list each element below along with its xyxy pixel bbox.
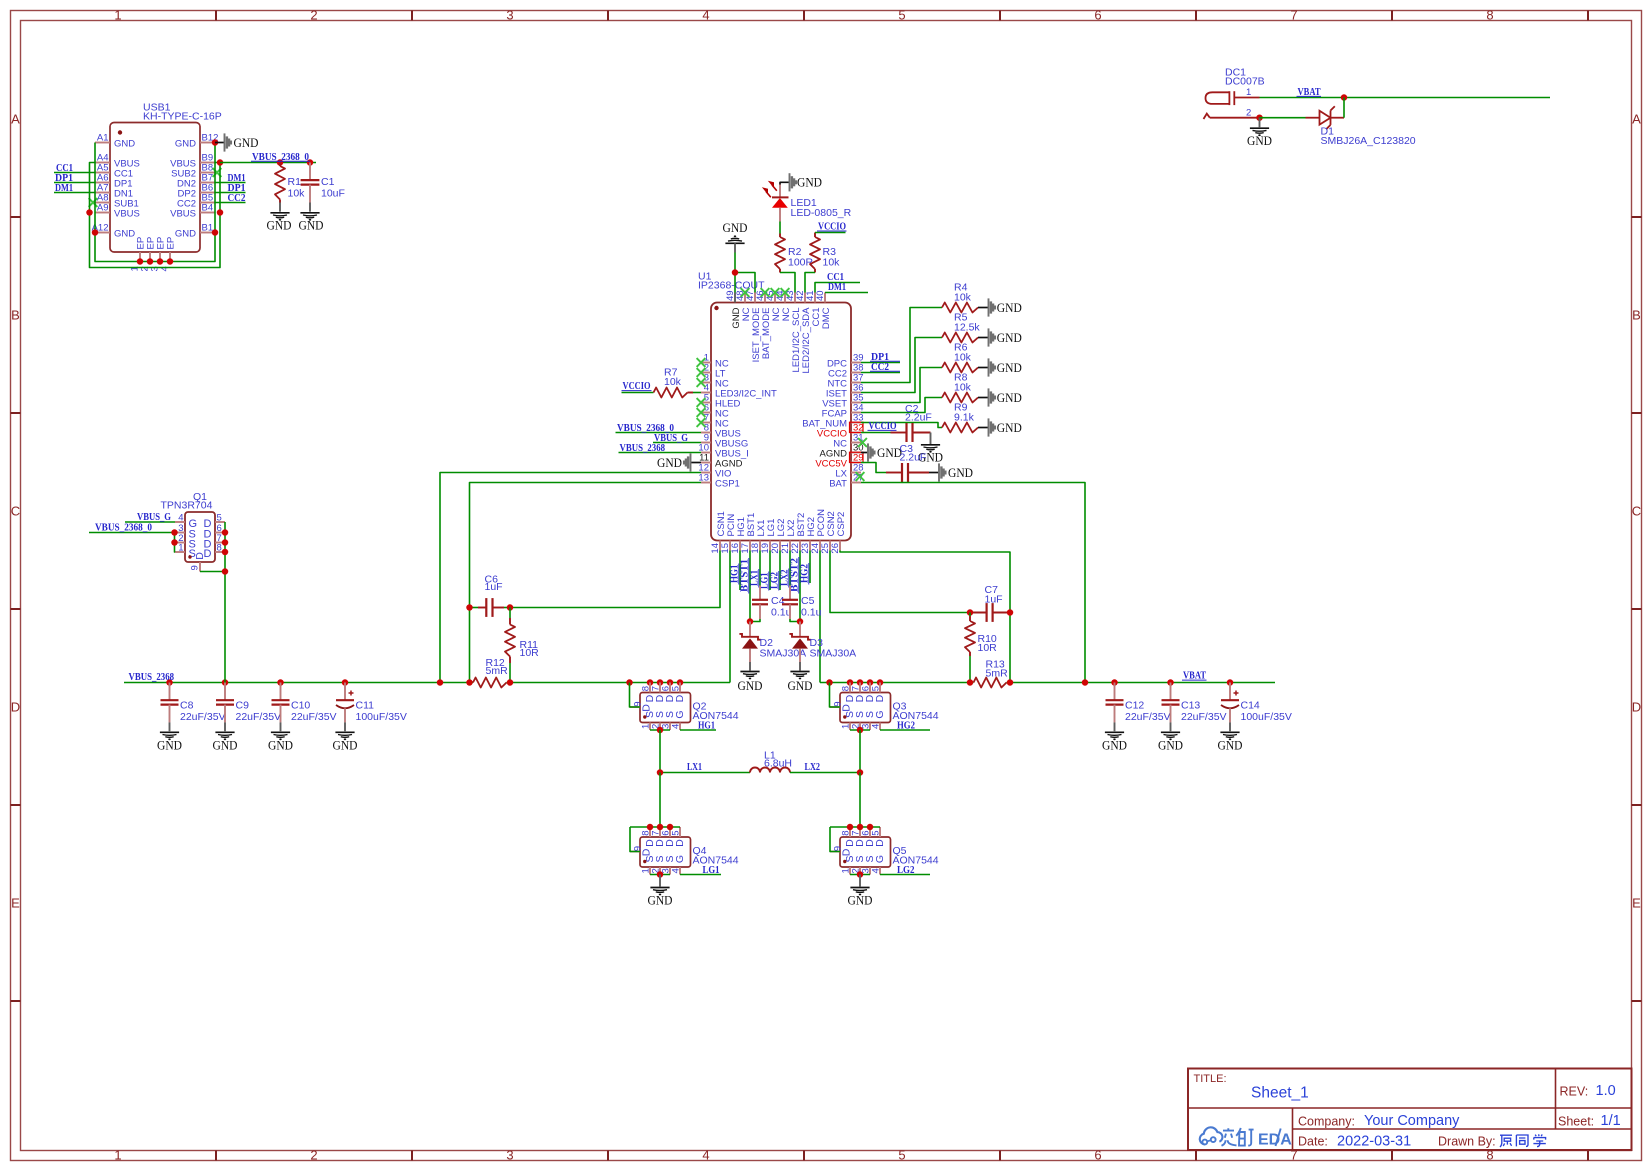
svg-text:G: G — [674, 855, 686, 863]
wire USB1 GND loop — [92, 139, 219, 265]
wire Q1 drain pins to rail — [200, 522, 228, 683]
net label VBUS_G at U1 pin 9 — [653, 432, 701, 444]
svg-text:10k: 10k — [954, 352, 972, 364]
wire Q4 source tie to ground — [650, 871, 670, 886]
svg-text:GND: GND — [788, 678, 813, 693]
net label VBUS_2368_0 at USB1 — [251, 151, 310, 163]
transistor Q5 AON7544 — [830, 827, 939, 875]
svg-text:EDA: EDA — [1258, 1132, 1292, 1149]
ground GND at D3 — [788, 672, 813, 694]
svg-text:A: A — [11, 112, 20, 127]
svg-text:GND: GND — [333, 738, 358, 753]
svg-text:HG1: HG1 — [698, 720, 715, 732]
svg-text:3: 3 — [506, 8, 513, 23]
wire U1 pin 27 BAT to rail — [861, 483, 1085, 683]
svg-text:100uF/35V: 100uF/35V — [356, 711, 407, 723]
svg-text:0.1u: 0.1u — [771, 607, 792, 619]
svg-text:C9: C9 — [236, 700, 250, 712]
svg-text:GND: GND — [948, 465, 973, 480]
wire VBUS_2368 rail left segment — [124, 679, 730, 686]
svg-text:10R: 10R — [520, 647, 540, 659]
resistor R11 10R — [505, 608, 539, 683]
svg-text:8: 8 — [1486, 8, 1493, 23]
svg-text:LX1: LX1 — [687, 761, 702, 773]
svg-text:7: 7 — [1290, 8, 1297, 23]
svg-text:4: 4 — [702, 8, 709, 23]
connector DC1 DC007B — [1204, 67, 1265, 120]
wire U1 pin49 and pin47 to GND — [732, 253, 755, 293]
svg-text:GND: GND — [1102, 738, 1127, 753]
svg-text:CSP1: CSP1 — [715, 478, 740, 489]
net label BTST2 at U1 pin 22 — [789, 551, 800, 622]
svg-text:100R: 100R — [788, 257, 814, 269]
svg-text:4: 4 — [671, 724, 682, 729]
net label DP1 at U1 pin 39 — [861, 351, 900, 363]
net label VBUS_2368_0 at Q1 pin 3 — [89, 522, 175, 534]
svg-text:9: 9 — [190, 565, 201, 570]
net label LG1 at U1 pin 19 — [759, 551, 770, 591]
svg-text:10k: 10k — [823, 257, 841, 269]
no-connect X on U1 pin 28 — [856, 472, 865, 481]
svg-text:D: D — [840, 848, 852, 856]
net label LX2 at L1 — [805, 761, 821, 773]
svg-text:A: A — [1632, 112, 1641, 127]
net label LX2 at U1 pin 21 — [779, 551, 790, 588]
svg-text:GND: GND — [299, 218, 324, 233]
wire Q5 source tie to ground — [850, 871, 870, 886]
svg-text:E: E — [11, 896, 20, 911]
capacitor C11 100uF/35V with ground — [333, 683, 407, 753]
svg-text:C: C — [11, 504, 20, 519]
svg-text:9.1k: 9.1k — [954, 412, 975, 424]
wire LX1 to Q4 drains — [630, 773, 680, 852]
svg-text:6: 6 — [1094, 1148, 1101, 1163]
svg-text:4: 4 — [702, 1148, 709, 1163]
ground GND at DC1 pin2 — [1247, 114, 1272, 148]
ground GND at Q5 — [848, 888, 873, 908]
capacitor C3 2.2uF — [886, 443, 929, 482]
svg-text:10k: 10k — [954, 382, 972, 394]
svg-text:2: 2 — [310, 1148, 317, 1163]
svg-text:D: D — [640, 848, 652, 856]
capacitor C4 0.1u — [750, 586, 792, 622]
svg-text:8: 8 — [217, 543, 222, 554]
ground GND at Q4 — [648, 888, 673, 908]
net label BTST1 at U1 pin 17 — [739, 551, 750, 622]
svg-text:100uF/35V: 100uF/35V — [1241, 711, 1292, 723]
svg-text:KH-TYPE-C-16P: KH-TYPE-C-16P — [143, 111, 222, 123]
net label VCCIO at R7 — [622, 380, 652, 392]
capacitor C10 22uF/35V with ground — [268, 683, 337, 753]
svg-text:VBUS_2368: VBUS_2368 — [129, 671, 175, 683]
svg-text:DM1: DM1 — [55, 182, 73, 194]
svg-text:DM1: DM1 — [828, 281, 846, 293]
svg-text:2: 2 — [310, 8, 317, 23]
wire U1 pin 12 VIO to rail — [440, 473, 701, 683]
svg-text:B1: B1 — [202, 223, 214, 234]
svg-text:10k: 10k — [288, 188, 306, 200]
transistor Q4 AON7544 — [630, 827, 739, 875]
ground flag GND at U1 pin 11 — [657, 453, 701, 471]
capacitor C6 1uF — [466, 574, 513, 617]
diode D1 SMBJ26A TVS — [1260, 98, 1416, 148]
capacitor C8 22uF/35V with ground — [157, 683, 226, 753]
wire U1 pin 35 VSET to R6 — [861, 368, 942, 403]
resistor R9 9.1k with ground flag — [942, 402, 1022, 437]
wire U1 pin 26 CSP2 to rail right — [840, 551, 1010, 683]
LED LED1 LED-0805_R — [763, 182, 851, 222]
net label VCCIO above R3 — [815, 221, 847, 233]
net label DM1 at U1 pin 40 — [825, 281, 868, 293]
svg-text:3: 3 — [506, 1148, 513, 1163]
svg-text:12.5k: 12.5k — [954, 322, 980, 334]
svg-text:C: C — [1632, 504, 1641, 519]
wire U1 pin 15 PCIN to rail — [729, 551, 731, 683]
svg-text:D: D — [11, 700, 20, 715]
wire U1 pin 33 BAT_NUM to R9 — [861, 423, 942, 428]
svg-text:6.8uH: 6.8uH — [764, 758, 792, 770]
svg-text:A9: A9 — [97, 203, 109, 214]
net label DP1 at USB1 B6 — [215, 182, 246, 194]
transistor Q1 TPN3R704 — [161, 491, 226, 572]
no-connect X on U1 pin 7 — [697, 418, 706, 427]
svg-text:SMBJ26A_C123820: SMBJ26A_C123820 — [1321, 135, 1416, 147]
net label LX1 at U1 pin 18 — [749, 551, 760, 588]
svg-text:1uF: 1uF — [985, 594, 1003, 606]
ground GND under C1 — [299, 213, 324, 233]
no-connect X on U1 pin 1 — [697, 358, 706, 367]
capacitor C9 22uF/35V with ground — [213, 683, 282, 753]
svg-text:10k: 10k — [954, 292, 972, 304]
wire Q2 source tie to LX1 — [650, 727, 670, 773]
svg-text:BAT: BAT — [829, 478, 847, 489]
svg-text:4: 4 — [178, 513, 183, 524]
wire U1 pin 24 PCON to rail — [819, 551, 821, 683]
ground GND under R1 — [267, 213, 292, 233]
no-connect X on U1 pin 2 — [697, 368, 706, 377]
IC U1 IP2368-COUT — [698, 271, 864, 554]
svg-text:GND: GND — [848, 893, 873, 908]
svg-text:VBUS: VBUS — [114, 208, 140, 219]
wire LED1 to R2 — [779, 222, 781, 234]
net label VBUS_G at Q1 pin 4 — [125, 511, 175, 523]
net label LG2 at U1 pin 20 — [769, 551, 780, 591]
svg-text:EP: EP — [166, 237, 177, 250]
wire VBAT rail right segment — [820, 679, 1275, 686]
svg-text:22uF/35V: 22uF/35V — [236, 711, 282, 723]
svg-text:LG1: LG1 — [703, 864, 720, 876]
svg-text:SMAJ30A: SMAJ30A — [810, 648, 857, 660]
resistor R2 100R — [775, 234, 814, 273]
svg-text:GND: GND — [648, 893, 673, 908]
svg-text:CC2: CC2 — [228, 192, 246, 204]
svg-text:Company:: Company: — [1298, 1115, 1355, 1129]
svg-text:4: 4 — [871, 724, 882, 729]
wire Q1 source pins tie — [171, 529, 178, 552]
svg-text:C13: C13 — [1181, 700, 1200, 712]
net label CC2 at USB1 B5 — [215, 192, 246, 204]
wire LX2 to Q5 drains — [830, 773, 880, 852]
wire U1 pin 29 VCC5V to C3 — [861, 463, 886, 473]
svg-text:GND: GND — [723, 220, 748, 235]
svg-text:C10: C10 — [291, 700, 310, 712]
svg-text:GND: GND — [1218, 738, 1243, 753]
net label VBUS_2368 at U1 pin 10 — [619, 442, 702, 454]
svg-text:GND: GND — [1247, 133, 1272, 148]
wire U1 pin 36 ISET to R5 — [861, 338, 942, 393]
capacitor C13 22uF/35V with ground — [1158, 683, 1227, 753]
wire U1 pin 37 NTC to R4 — [861, 308, 942, 383]
svg-text:C11: C11 — [356, 700, 375, 712]
wire U1 pin 25 CSN2 to C7 — [830, 551, 970, 613]
svg-text:LX2: LX2 — [805, 761, 821, 773]
svg-text:Drawn By:: Drawn By: — [1438, 1135, 1496, 1149]
svg-text:B: B — [11, 308, 20, 323]
svg-text:D: D — [674, 694, 686, 702]
svg-text:Sheet:: Sheet: — [1558, 1115, 1594, 1129]
svg-text:1uF: 1uF — [485, 581, 503, 593]
svg-text:4: 4 — [671, 868, 682, 873]
svg-text:Sheet_1: Sheet_1 — [1251, 1085, 1309, 1102]
no-connect X on U1 pin 45 — [771, 288, 780, 297]
svg-text:1: 1 — [114, 8, 121, 23]
net label DM1 at USB1 A7 — [54, 182, 95, 194]
no-connect X on U1 pin 48 — [741, 288, 750, 297]
resistor R8 10k with ground flag — [942, 372, 1022, 407]
svg-text:D: D — [674, 839, 686, 847]
svg-text:GND: GND — [157, 738, 182, 753]
wire U1 pin 34 FCAP to R8 — [861, 398, 942, 413]
svg-text:5: 5 — [898, 1148, 905, 1163]
net label VBAT at DC1 — [1297, 86, 1322, 98]
svg-text:GND: GND — [114, 138, 135, 149]
svg-text:TPN3R704: TPN3R704 — [161, 500, 213, 512]
capacitor C12 22uF/35V with ground — [1102, 683, 1171, 753]
net label LX1 at L1 — [687, 761, 702, 773]
transistor Q2 AON7544 — [630, 683, 739, 731]
diode D3 SMAJ30A — [789, 618, 856, 670]
svg-text:1: 1 — [1246, 87, 1251, 98]
net label CC1 at USB1 A5 — [54, 162, 95, 174]
svg-text:5: 5 — [671, 831, 682, 836]
svg-text:G: G — [874, 855, 886, 863]
ground flag GND at C3 — [929, 463, 973, 481]
svg-text:Date:: Date: — [1298, 1135, 1328, 1149]
svg-text:C12: C12 — [1125, 700, 1144, 712]
svg-text:5: 5 — [871, 686, 882, 691]
svg-text:A1: A1 — [97, 133, 109, 144]
svg-text:C1: C1 — [321, 176, 335, 188]
EasyEDA logo — [1200, 1127, 1292, 1148]
svg-text:5: 5 — [898, 8, 905, 23]
resistor R5 12.5k with ground flag — [942, 312, 1022, 347]
net label VBAT at rail — [1182, 670, 1207, 682]
resistor R10 10R — [965, 613, 997, 683]
no-connect X on U1 pin 44 — [781, 288, 790, 297]
wire R3 to U1 pin 42 — [805, 273, 815, 293]
ground flag GND at U1 pin 30 — [861, 443, 902, 461]
svg-text:10R: 10R — [978, 642, 998, 654]
svg-text:2: 2 — [1246, 107, 1251, 118]
svg-text:4: 4 — [871, 868, 882, 873]
svg-text:VBUS_2368: VBUS_2368 — [620, 442, 666, 454]
net label LG2 at Q5 gate — [880, 864, 930, 876]
resistor R12 5mR — [473, 657, 508, 688]
svg-text:D: D — [1632, 700, 1641, 715]
svg-text:22uF/35V: 22uF/35V — [1181, 711, 1227, 723]
resistor R1 10k — [275, 163, 305, 212]
ground GND earth above U1 pin 49 — [723, 220, 748, 253]
svg-text:GND: GND — [267, 218, 292, 233]
net label CC1 at U1 pin 41 — [815, 271, 860, 293]
svg-text:2.2uF: 2.2uF — [905, 412, 932, 424]
svg-text:6: 6 — [1094, 8, 1101, 23]
svg-text:GND: GND — [797, 175, 822, 190]
svg-text:C5: C5 — [801, 595, 815, 607]
capacitor C2 2.2uF — [861, 403, 932, 442]
resistor R3 10k — [810, 233, 840, 273]
svg-text:22uF/35V: 22uF/35V — [1125, 711, 1171, 723]
svg-text:40: 40 — [815, 290, 826, 301]
no-connect X on U1 pin 31 — [858, 438, 867, 447]
svg-text:REV:: REV: — [1560, 1085, 1589, 1099]
svg-text:1: 1 — [178, 543, 183, 554]
svg-text:5mR: 5mR — [986, 668, 1009, 680]
svg-text:10uF: 10uF — [321, 188, 345, 200]
svg-text:D: D — [640, 704, 652, 712]
wire Q3 source tie to LX2 — [850, 727, 870, 773]
no-connect X on U1 pin 5 — [697, 398, 706, 407]
resistor R4 10k with ground flag — [942, 282, 1022, 317]
ground GND at D2 — [738, 672, 763, 694]
net label HG2 at Q3 gate — [880, 720, 930, 732]
net label HG1 at Q2 gate — [680, 720, 716, 732]
net label CC2 at U1 pin 38 — [861, 361, 900, 373]
wire USB1 VBUS loop — [86, 159, 223, 267]
svg-text:DMC: DMC — [821, 307, 832, 329]
resistor R13 5mR — [974, 659, 1009, 688]
svg-text:GND: GND — [738, 678, 763, 693]
net label HG1 at U1 pin 16 — [729, 551, 740, 591]
svg-text:VBUS: VBUS — [170, 208, 196, 219]
svg-text:B4: B4 — [202, 203, 214, 214]
resistor R6 10k with ground flag — [942, 342, 1022, 377]
svg-text:GND: GND — [234, 135, 259, 150]
wire Q3 pin 9 to rail — [830, 683, 841, 708]
svg-text:5: 5 — [871, 831, 882, 836]
svg-text:R1: R1 — [288, 176, 302, 188]
net label VBUS_2368 at rail — [129, 671, 175, 683]
capacitor C14 100uF/35V with ground — [1218, 683, 1292, 753]
capacitor C1 10uF — [301, 163, 345, 212]
resistor R7 10k — [622, 367, 702, 398]
ground flag GND at LED1 — [790, 173, 823, 191]
svg-text:1: 1 — [114, 1148, 121, 1163]
capacitor C5 0.1u — [782, 586, 822, 622]
net label HG2 at U1 pin 23 — [799, 551, 810, 585]
svg-text:B: B — [1632, 308, 1641, 323]
wire R2 to U1 pin 43 — [780, 273, 795, 293]
wire Q2 pin 9 to rail — [630, 683, 641, 708]
inductor L1 6.8uH — [657, 750, 864, 776]
title block — [1188, 1069, 1632, 1151]
svg-text:D: D — [874, 839, 886, 847]
ground GND at C2 — [918, 433, 943, 465]
svg-text:GND: GND — [997, 420, 1022, 435]
svg-text:GND: GND — [877, 445, 902, 460]
svg-text:GND: GND — [213, 738, 238, 753]
svg-text:TITLE:: TITLE: — [1194, 1073, 1227, 1085]
svg-text:GND: GND — [997, 330, 1022, 345]
svg-text:Your Company: Your Company — [1364, 1113, 1460, 1129]
svg-text:GND: GND — [997, 360, 1022, 375]
svg-text:1/1: 1/1 — [1601, 1113, 1621, 1129]
svg-text:C14: C14 — [1241, 700, 1260, 712]
svg-text:GND: GND — [1158, 738, 1183, 753]
svg-text:VBUS_2368_0: VBUS_2368_0 — [95, 522, 152, 534]
svg-text:CSP2: CSP2 — [836, 512, 847, 537]
no-connect X on USB1 pin B8 — [213, 168, 222, 177]
svg-text:HG2: HG2 — [897, 720, 915, 732]
svg-text:GND: GND — [997, 300, 1022, 315]
svg-text:GND: GND — [175, 228, 196, 239]
wire VBUS_2368_0 from B9 to R1 C1 — [220, 159, 316, 166]
svg-text:GND: GND — [657, 455, 682, 470]
svg-text:5: 5 — [217, 513, 222, 524]
svg-text:2022-03-31: 2022-03-31 — [1337, 1134, 1411, 1150]
capacitor C7 1uF — [967, 584, 1014, 622]
svg-text:GND: GND — [175, 138, 196, 149]
no-connect X on USB1 pin A8 — [89, 198, 98, 207]
svg-text:1.0: 1.0 — [1596, 1083, 1616, 1099]
svg-text:22uF/35V: 22uF/35V — [291, 711, 337, 723]
no-connect X on U1 pin 46 — [761, 288, 770, 297]
net label DM1 at USB1 B7 — [215, 172, 246, 184]
svg-text:5: 5 — [671, 686, 682, 691]
svg-text:E: E — [1632, 896, 1641, 911]
wire U1 pin 13 CSP1 to rail — [470, 483, 702, 683]
svg-text:LG2: LG2 — [897, 864, 915, 876]
wire VBAT from DC1 pin1 — [1260, 94, 1551, 101]
net label LG1 at Q4 gate — [680, 864, 721, 876]
svg-text:GND: GND — [997, 390, 1022, 405]
connector USB1 KH-TYPE-C-16P — [92, 102, 222, 272]
no-connect X on U1 pin 3 — [697, 378, 706, 387]
svg-text:2.2uF: 2.2uF — [900, 452, 927, 464]
no-connect X on U1 pin 6 — [697, 408, 706, 417]
svg-text:G: G — [674, 710, 686, 718]
svg-text:10k: 10k — [664, 376, 682, 388]
svg-text:D: D — [874, 694, 886, 702]
svg-text:GND: GND — [114, 228, 135, 239]
wire U1 pin 14 CSN1 to C6 — [510, 551, 720, 608]
ground flag GND at USB1 B12 — [215, 133, 259, 151]
svg-text:D: D — [194, 552, 206, 560]
svg-text:0.1u: 0.1u — [801, 607, 822, 619]
net label DP1 at USB1 A6 — [54, 172, 95, 184]
svg-text:26: 26 — [830, 543, 841, 554]
svg-text:C8: C8 — [180, 700, 194, 712]
diode D2 SMAJ30A — [739, 618, 806, 670]
net label VBUS_2368_0 at U1 pin 8 — [616, 422, 702, 434]
svg-text:22uF/35V: 22uF/35V — [180, 711, 226, 723]
svg-text:G: G — [874, 710, 886, 718]
svg-text:LED-0805_R: LED-0805_R — [791, 207, 852, 219]
svg-text:DC007B: DC007B — [1225, 76, 1265, 88]
svg-text:D: D — [840, 704, 852, 712]
svg-text:GND: GND — [268, 738, 293, 753]
svg-text:5mR: 5mR — [486, 665, 509, 677]
